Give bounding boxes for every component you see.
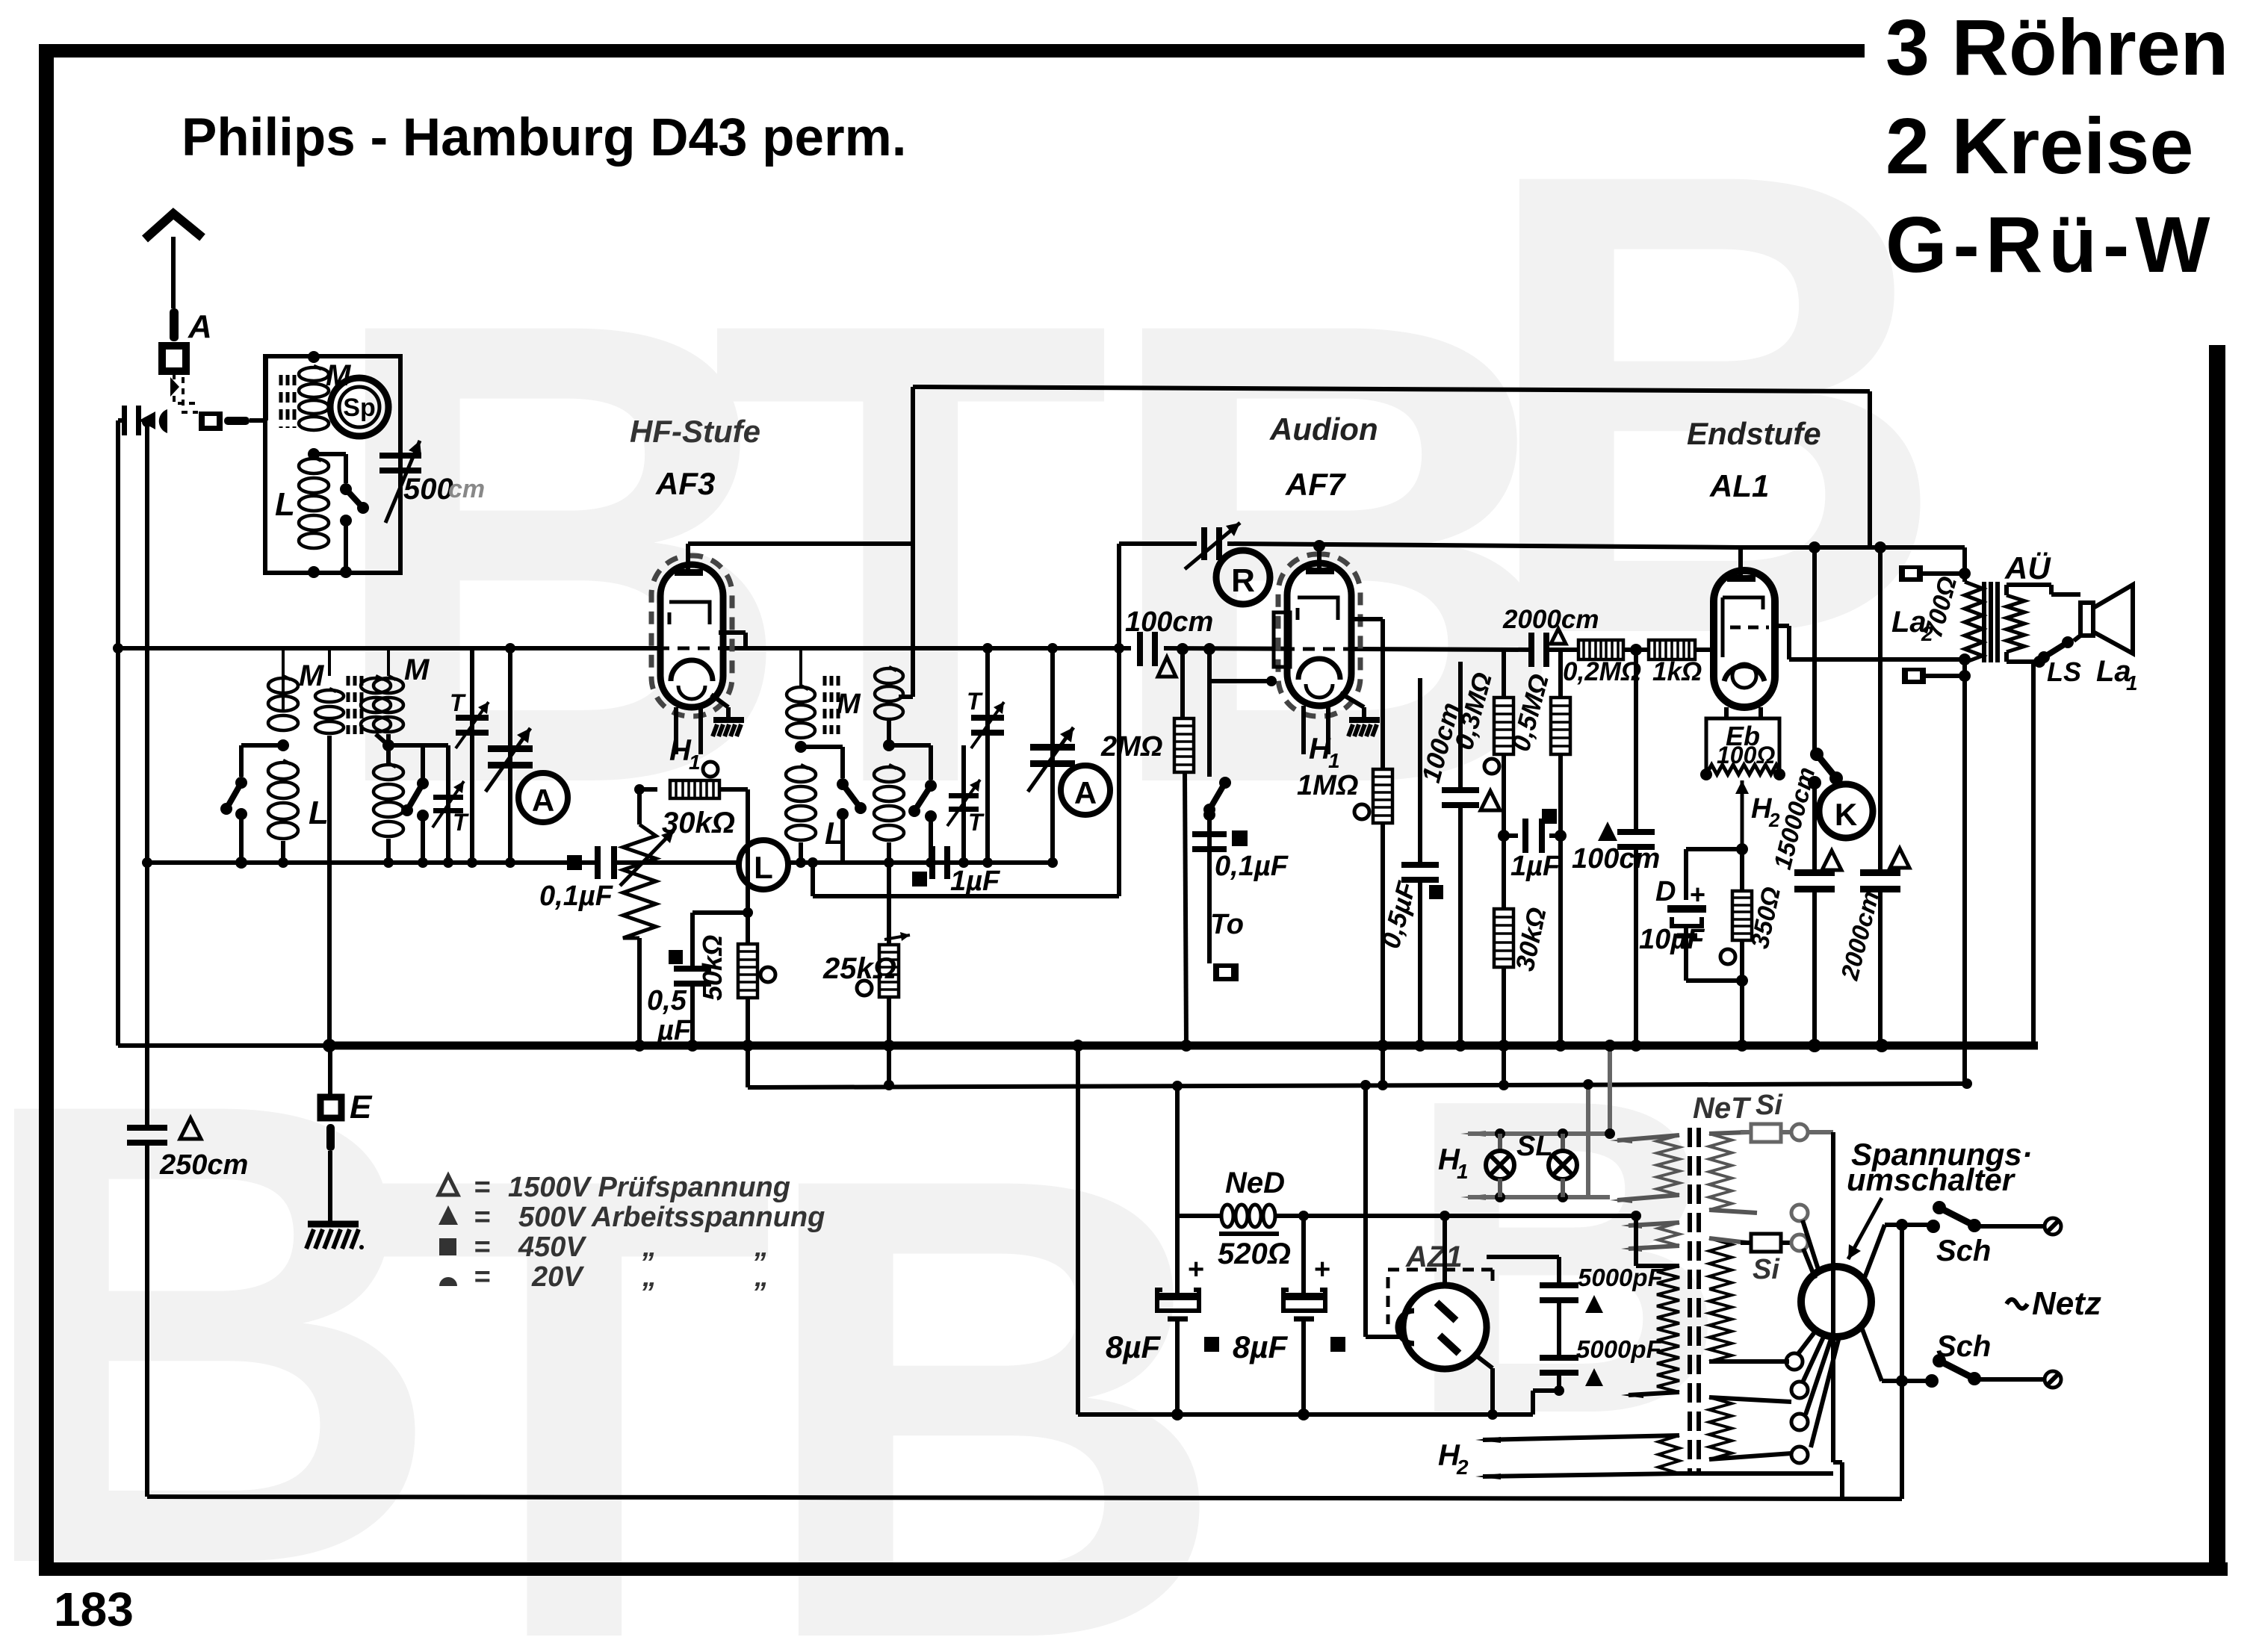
lamp rail bottom [1468,1195,1610,1199]
terminal To [1207,852,1212,963]
resistor 30kOhm [670,780,719,798]
main bus y1400 [118,1043,329,1048]
transformer AU primary [1962,547,1967,582]
svg-text:Endstufe: Endstufe [1687,416,1821,451]
NeT primary winding w1 [1657,1135,1679,1195]
symbol square 1uF coupling [1542,809,1557,824]
legend row 1500V [439,1176,458,1195]
contact circle si2 [1791,1235,1808,1251]
node rail 1619 [1203,643,1215,655]
svg-text:450V: 450V [518,1232,586,1263]
switch TC4 [889,743,931,748]
svg-text:AL1: AL1 [1709,468,1769,503]
tube AF7 cathode [1298,659,1340,680]
tube AF3 grid dashes [657,647,726,650]
tube AF7 shield dashed [1278,554,1360,716]
coil L4 [874,767,904,782]
svg-text:D: D [1655,876,1676,907]
contact circle t1 [1786,1353,1803,1370]
legend row 450V [439,1238,456,1255]
svg-text:E: E [350,1089,373,1125]
symbol triangle 2000cm shunt [1890,848,1909,868]
lower rail TC3 [801,860,988,865]
NeT secondary mid [1709,1238,1732,1289]
speaker cone [2093,585,2133,653]
wire speaker drop x2722 [2031,662,2036,1046]
tuning capacitor A2 [1050,648,1055,863]
NeT winding w2 [1658,1223,1679,1246]
wire x2633 selector drop [1962,1078,1972,1089]
wire AZ1 to 5000pF [1486,1257,1487,1270]
PSU left drop x1443 [1072,1040,1084,1052]
tube AF3 grid cap [675,569,703,576]
speaker LS switch [2033,656,2045,668]
reaction line y729 [1119,541,1197,546]
AZ1 cathode leads [1473,1353,1493,1368]
node rail 1583 [1177,643,1189,655]
selector label arrow [1848,1198,1882,1259]
meter circle A2 [1061,766,1110,815]
rectifier AZ1 dashed box [1388,1270,1493,1324]
svg-text:Audion: Audion [1269,412,1378,447]
svg-text:L: L [275,486,295,523]
svg-text:+: + [1690,879,1705,910]
speaker magnet [2080,603,2093,636]
coil M1c [361,678,391,693]
capacitor 0,5uF [674,966,711,972]
node x1001 corner [743,907,753,918]
svg-text:=: = [474,1172,490,1203]
wiper arrow H2 [1741,780,1744,849]
wire top loop TC1 [282,648,285,709]
feedback line y518 [913,387,1870,391]
svg-text:AÜ: AÜ [2004,550,2051,586]
selector feed wire [1808,1130,1833,1134]
capacitor 100cm endstufe [1634,650,1638,832]
wire pot to bus [637,938,642,1046]
svg-text:AZ1: AZ1 [1405,1240,1463,1273]
svg-text:50kΩ: 50kΩ [697,935,728,1001]
wire 50k to bus [746,998,750,1046]
svg-text:G-Rü-W: G-Rü-W [1885,201,2216,289]
svg-text:A: A [1074,775,1097,810]
svg-text:0,2MΩ: 0,2MΩ [1563,657,1641,686]
resistor 50kOhm [738,944,757,998]
main grid rail y869 [118,646,1131,650]
wire L-drop x442 [327,736,332,1046]
resistor 0,2MOhm series [1578,640,1623,659]
earth terminal E [328,1046,332,1097]
contact circle t2 [1791,1382,1808,1398]
resistor 25kOhm [888,863,890,946]
capacitor 0,1uF series [595,846,601,879]
coil L in Sp box [299,459,329,473]
svg-text:AF3: AF3 [655,466,715,501]
svg-text:1kΩ: 1kΩ [1652,657,1702,686]
tube AF3 anode lead [719,630,746,635]
wire 30k right [719,787,748,792]
symbol square 0,1uF [567,855,582,870]
coil M1a [268,678,298,693]
NeD line y1628 [1177,1214,1221,1218]
node jack junction [142,417,152,427]
NeT secondary low [1709,1289,1732,1361]
wire pot top [639,787,657,792]
coil M in Sp box [299,367,329,381]
node x2429 y733 [1809,541,1821,553]
wire AF3grid to M4 [899,695,913,699]
wire x2546 mains drop [1896,1219,1908,1231]
capacitor 1uF coupling [1522,819,1528,853]
ground symbol [308,1221,359,1228]
antenna arrow [171,237,176,308]
symbol square 0,5uF [669,950,683,964]
node TC2 bottom [383,857,394,868]
trimmer T TC2 upper [470,648,474,863]
svg-text:20V: 20V [531,1261,584,1293]
symbol triangle 250cm [180,1118,201,1139]
svg-text:A: A [532,783,554,818]
coil M2 [374,678,403,693]
svg-text:Si: Si [1753,1254,1780,1285]
svg-text:500: 500 [403,473,453,506]
resistor 100Ohm zigzag [1706,765,1782,774]
coil M3 [787,687,815,702]
node x197 y1155 [142,857,152,868]
symbol triangle 5000pF no2 [1585,1368,1603,1386]
trimmer T TC4 upper [985,648,990,863]
svg-text:cm: cm [448,475,485,503]
terminal circle 25k [857,981,872,996]
wire 0,5uF to bus [690,983,695,1046]
wire TC3 top [799,648,802,686]
wire AU bottom drop [1962,676,1967,1085]
svg-text:NeD: NeD [1225,1167,1285,1199]
lower rail TC4 to Acap [988,860,1053,865]
terminal circle Netz bottom [2045,1371,2061,1388]
wire TC2 tap to trimmer [388,743,448,748]
battery D loop wire [1686,847,1742,851]
antenna jack [159,409,167,433]
coil L1 [268,763,298,779]
svg-text:500V Arbeitsspannung: 500V Arbeitsspannung [518,1202,825,1233]
svg-text:„: „ [642,1232,657,1263]
wire x1498 vertical [1117,544,1121,896]
node TC2 tap [382,739,394,751]
coil L3 [786,767,816,782]
wire TC2 top [387,648,390,676]
wire lamp feed 1 [1608,1046,1612,1134]
svg-text:NeT: NeT [1693,1092,1752,1125]
bottom return wire y2004 [147,1497,1902,1499]
circle K [1819,784,1873,838]
svg-text:„: „ [754,1261,769,1293]
terminal circle 350 [1720,949,1735,964]
svg-text:M: M [299,659,325,692]
svg-text:L: L [309,795,329,831]
transformer AU core [1982,582,1986,662]
node TC4 tap [883,739,895,751]
NeT secondary bottom [1709,1397,1732,1459]
NeT secondary top [1709,1134,1732,1210]
ground AF7 [1340,693,1364,707]
node 1M bus [1377,1040,1389,1052]
wire loop y1200 [811,863,815,896]
capacitor 5000pF no1 [1487,1255,1559,1259]
switch K [1812,547,1817,752]
core dashes TC1 [347,676,350,734]
anode supply line y733 [1741,545,1965,550]
svg-text:Sch: Sch [1936,1235,1991,1267]
node Sp mid [308,448,320,460]
svg-text:R: R [1231,562,1255,599]
terminal circle 0,3M [1484,759,1499,774]
node 25k bus [883,1040,895,1052]
svg-text:L: L [754,850,773,885]
svg-text:M: M [404,653,430,686]
svg-text:To: To [1210,909,1244,940]
node pot bus [633,1040,645,1052]
circle R regeneration [1216,550,1270,604]
symbol triangle 5000pF no1 [1585,1295,1603,1313]
tube AF7 grid dashes [1262,648,1356,651]
resistor 2MOhm [1180,649,1185,718]
terminal circle 30k [703,762,718,777]
selector spokes [1803,1220,1820,1274]
coil M1b [315,690,344,702]
tube AF3 envelope [660,565,723,707]
wire AF3 grid top link [688,541,913,546]
capacitor 100cm series [1137,632,1143,666]
switch Sch bottom [1925,1374,1939,1388]
tube AF7 grid cap [1306,568,1334,574]
symbol triangle 100cm shunt [1481,791,1500,810]
antenna plug pin A [170,308,179,341]
symbol square 0,5uF audion [1429,885,1443,899]
tube AF7 anode lead [1351,617,1383,621]
pilot lamp no2 [1561,1134,1565,1152]
NeT core [1688,1128,1692,1475]
circle L volume [739,840,788,889]
svg-text:Sch: Sch [1936,1330,1991,1363]
svg-text:+: + [1314,1254,1330,1285]
border frame left [39,44,54,1574]
svg-text:30kΩ: 30kΩ [662,807,735,839]
svg-text:1: 1 [689,751,701,774]
switch TC2 [388,743,423,748]
svg-text:8µF: 8µF [1233,1329,1289,1364]
svg-text:1500V Prüfspannung: 1500V Prüfspannung [508,1172,790,1203]
svg-text:1MΩ: 1MΩ [1297,770,1358,801]
Eb bias box [1706,718,1779,774]
capacitor 15000cm [1794,869,1835,876]
border frame right [2209,345,2225,1576]
symbol triangle 15000cm [1822,851,1841,870]
capacitor 1uF series [929,846,935,879]
wire lamp feed 2 [1586,1084,1590,1197]
node reaction-AF7 [1313,540,1325,552]
symbol triangle 2000cm [1551,629,1566,644]
switch To [1207,649,1212,777]
svg-text:520Ω: 520Ω [1218,1238,1291,1270]
svg-text:+: + [1188,1254,1204,1285]
svg-text:0,1µF: 0,1µF [1215,851,1289,882]
rectifier AZ1 bulb [1403,1285,1487,1369]
svg-text:Netz: Netz [2032,1285,2101,1322]
speaker bottom wire [2074,636,2080,641]
resistor 0,3MOhm [1503,547,1505,698]
capacitor 2000cm series [1528,633,1534,667]
svg-text:0,5: 0,5 [647,985,687,1016]
resistor 1kOhm series [1649,640,1695,659]
NeT H2 winding [1658,1435,1679,1474]
svg-text:Philips - Hamburg D43 perm.: Philips - Hamburg D43 perm. [182,108,907,167]
svg-text:10µF: 10µF [1639,924,1705,955]
wire anode to AU [1787,626,1791,659]
wire x1576 to NeD [1175,1086,1180,1216]
svg-text:0,1µF: 0,1µF [539,881,614,912]
battery electrolytic 10uF [1667,905,1706,913]
svg-text:2 Kreise: 2 Kreise [1885,102,2194,190]
wire left drop x158 [116,420,120,1046]
symbol square 0,1uF audion [1232,830,1248,846]
svg-text:SL: SL [1516,1131,1553,1162]
symbol square 8uF no1 [1204,1337,1219,1352]
switch TC3 [801,745,843,749]
svg-text:T: T [374,1041,775,1652]
svg-text:AF7: AF7 [1285,467,1346,502]
svg-text:1: 1 [1457,1160,1469,1183]
svg-text:2: 2 [1456,1456,1469,1479]
tube AL1 grid cap [1727,575,1756,582]
node Sp top [308,351,320,363]
svg-text:=: = [474,1232,490,1263]
svg-text:=: = [474,1202,490,1233]
svg-text:8µF: 8µF [1106,1329,1162,1364]
heater line y1453 [746,1046,750,1087]
electrolytic 8uF no2 [1298,1211,1309,1221]
svg-text:LS: LS [2047,656,2081,687]
speaker top wire [2049,585,2054,594]
symbol square 8uF no2 [1330,1337,1345,1352]
reaction capacitor variable [1201,527,1207,560]
svg-text:100cm: 100cm [1572,843,1660,875]
wire AL1 to Eb box [1724,707,1729,718]
capacitor 5000pF no2 [1540,1355,1578,1361]
svg-text:T: T [968,809,985,836]
tube AL1 cathode [1724,665,1764,681]
svg-text:„: „ [642,1261,657,1293]
tube AF7 envelope [1287,563,1351,706]
wire y1155 through L [639,860,801,865]
svg-text:umschalter: umschalter [1847,1162,2016,1197]
antenna series capacitor [122,406,127,435]
node TC1 bottom [235,857,247,869]
terminal circle 1M [1354,804,1369,819]
svg-text:5000pF: 5000pF [1576,1335,1662,1363]
pilot lamp no1 [1498,1134,1502,1152]
AZ1 anode stub [1440,1211,1450,1221]
capacitor 100cm shunt [1458,662,1463,790]
node 2M bus [1180,1040,1192,1052]
svg-text:T: T [967,688,983,715]
wire mid drop x197 [145,422,149,1127]
node x1575 y1452 [1172,1081,1183,1091]
antenna linkage dashed [174,373,198,403]
symbol triangle 100cm [1158,657,1176,677]
tube AL1 grid dashes [1723,597,1763,657]
trimmer T TC4 [961,745,966,863]
svg-text:=: = [474,1261,490,1293]
symbol triangle 100cm endstufe [1598,822,1617,841]
svg-text:183: 183 [54,1583,134,1636]
svg-text:Sp: Sp [343,394,375,422]
svg-text:1: 1 [2126,671,2138,695]
tube AF3 cathode [671,660,713,681]
switch in Sp box [314,452,346,456]
tube AF3 shield dashed [651,556,732,716]
contact circle t4 [1791,1447,1808,1463]
svg-text:µF: µF [657,1015,692,1046]
node TC1 tap [277,739,289,751]
svg-text:T: T [453,809,469,836]
potentiometer volume [637,789,642,825]
svg-text:2MΩ: 2MΩ [1100,731,1162,763]
terminal circle Netz top [2045,1218,2061,1235]
coil L2 [374,765,403,780]
svg-text:1µF: 1µF [1510,851,1561,882]
fuse Si no2 [1751,1234,1781,1252]
node y1057 left [634,784,645,795]
svg-text:„: „ [754,1232,769,1263]
capacitor 0,1uF audion [1192,831,1227,837]
legend row 500V [439,1205,458,1225]
svg-text:2000cm: 2000cm [1502,605,1599,634]
resistor 1MOhm [1381,619,1385,769]
AU terminal bottom [1902,668,1926,684]
tube AF7 grid box [1274,612,1290,667]
svg-text:100cm: 100cm [1125,606,1213,638]
contact circle si1 [1791,1124,1808,1140]
svg-text:T: T [450,689,466,716]
wire TC1c bottom [376,734,388,745]
earth lead [326,1124,335,1151]
node 0,3M top [1503,648,1505,650]
capacitor 0,5uF audion [1418,678,1422,866]
node TC4 bottom [884,857,894,868]
node TC3 tap [795,741,807,753]
capacitor 500cm variable [379,453,421,459]
core dashes TC3 [823,676,827,734]
AZ1 left lead [1366,1335,1404,1339]
tuning capacitor A1 [508,648,512,863]
svg-text:HF-Stufe: HF-Stufe [630,414,760,449]
choke NeD [1221,1205,1233,1227]
resistor 350Ohm [1740,849,1744,891]
antenna plug to Sp [199,412,223,431]
antenna socket [162,346,186,371]
voltage selector circle [1801,1267,1871,1337]
svg-text:3 Röhren: 3 Röhren [1885,4,2228,92]
border frame top [39,44,1865,58]
core dashes Sp [279,375,283,428]
border frame bottom [39,1562,2228,1576]
wire x1001 down [746,789,750,945]
svg-text:M: M [837,689,861,720]
NeT HT winding [1657,1266,1679,1392]
PSU bottom wire y1894 [1078,1412,1533,1417]
svg-text:1µF: 1µF [950,866,1001,897]
